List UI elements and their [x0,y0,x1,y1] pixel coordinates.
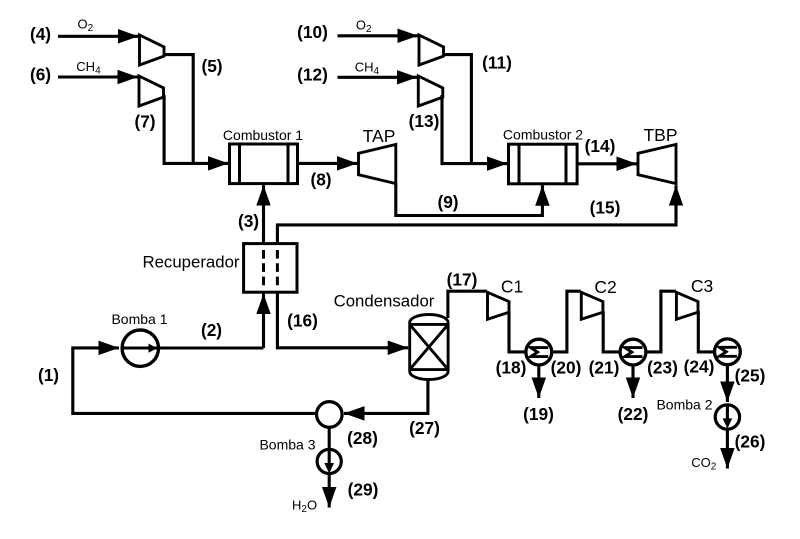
svg-text:C2: C2 [594,277,616,297]
svg-text:Combustor 1: Combustor 1 [223,127,303,143]
svg-text:(27): (27) [409,418,440,438]
svg-text:(21): (21) [589,358,620,378]
svg-text:(3): (3) [238,211,259,231]
svg-text:Combustor 2: Combustor 2 [503,126,583,142]
svg-text:C3: C3 [691,276,713,296]
svg-text:(16): (16) [287,311,318,331]
svg-text:Bomba 1: Bomba 1 [111,311,167,327]
svg-text:(20): (20) [551,358,582,378]
svg-text:(9): (9) [437,192,458,212]
svg-text:Condensador: Condensador [334,292,435,311]
svg-text:TBP: TBP [643,125,677,145]
svg-text:(18): (18) [496,358,527,378]
svg-text:(17): (17) [447,270,478,290]
svg-text:(12): (12) [297,65,328,85]
svg-text:(1): (1) [38,365,59,385]
svg-text:(23): (23) [647,358,678,378]
svg-text:(29): (29) [348,480,379,500]
svg-text:(28): (28) [347,428,378,448]
svg-text:(4): (4) [30,24,51,44]
svg-text:(22): (22) [618,404,649,424]
svg-text:(14): (14) [585,136,616,156]
svg-text:(25): (25) [735,366,766,386]
svg-text:TAP: TAP [363,126,396,146]
svg-text:(8): (8) [310,170,331,190]
svg-text:(6): (6) [30,65,51,85]
svg-text:Recuperador: Recuperador [142,253,239,272]
svg-text:(26): (26) [735,432,766,452]
svg-text:Bomba 3: Bomba 3 [259,437,315,453]
svg-text:Bomba 2: Bomba 2 [656,397,712,413]
svg-text:(19): (19) [523,404,554,424]
svg-text:(10): (10) [297,22,328,42]
svg-text:(7): (7) [134,112,155,132]
svg-text:(5): (5) [201,56,222,76]
svg-text:(24): (24) [684,357,715,377]
svg-text:(15): (15) [590,198,621,218]
svg-text:C1: C1 [501,277,523,297]
svg-text:(2): (2) [201,320,222,340]
svg-text:(11): (11) [482,53,512,73]
svg-text:(13): (13) [409,111,440,131]
